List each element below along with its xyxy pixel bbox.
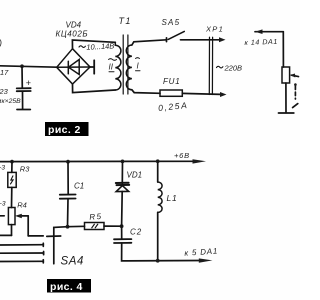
wire fuse to plug (182, 93, 220, 94)
svg-text:КЦ402Б: КЦ402Б (56, 30, 89, 39)
mechanical link dashed (294, 86, 296, 99)
switch SA5 lever (168, 31, 184, 39)
fig.4 caption (47, 279, 91, 293)
SA4 moving contact bar (47, 235, 61, 237)
wire rail to L1 (157, 161, 159, 182)
svg-text:17: 17 (0, 68, 9, 77)
svg-text:0-3: 0-3 (0, 201, 6, 208)
svg-text:0мк×25В: 0мк×25В (0, 98, 21, 105)
capacitor C1 (60, 194, 76, 196)
svg-text:0,25А: 0,25А (158, 100, 189, 113)
svg-text:R5: R5 (89, 212, 103, 222)
svg-text:II: II (109, 63, 114, 72)
+6V top rail (0, 160, 194, 162)
wire down to trimmer (282, 32, 284, 67)
switch SA4 contact line 2 (0, 252, 44, 254)
svg-text:FU1: FU1 (163, 77, 181, 86)
wire node to C2 (121, 226, 123, 239)
wiper wire down (27, 216, 29, 236)
bottom rail arrow to 5 DA1 (199, 258, 213, 262)
svg-text:SA5: SA5 (162, 18, 181, 27)
svg-text:к 14 DA1: к 14 DA1 (244, 37, 278, 47)
diode inside bridge (68, 60, 79, 75)
svg-text:I: I (137, 62, 140, 71)
trimmer resistor body (282, 67, 290, 83)
svg-text:XP1: XP1 (205, 25, 224, 34)
svg-text:Т1: Т1 (119, 16, 132, 26)
wire C2 to bottom rail (122, 243, 200, 261)
plug XP1 bottom arrow (220, 92, 227, 97)
switch SA4 contact line 3 (0, 260, 43, 262)
svg-text:): ) (0, 38, 2, 48)
fuse FU1 (160, 90, 182, 96)
svg-text:8-3: 8-3 (0, 165, 5, 172)
node rail-C1 (66, 160, 70, 164)
svg-text:VD4: VD4 (66, 21, 82, 30)
resistor R3 (8, 172, 16, 187)
trimmer wiper arrow (292, 75, 299, 76)
fig.2 caption (45, 122, 89, 136)
wire rail to R3 (11, 162, 13, 173)
wire R5 to node VD1 (104, 225, 122, 227)
R4 left stub (0, 215, 4, 217)
winding II of T1 (115, 42, 121, 90)
svg-text:C2: C2 (130, 228, 142, 237)
diode VD1 (116, 183, 129, 192)
node junction on main wire (20, 64, 24, 68)
R4 bottom lead (11, 225, 13, 236)
node rail-VD1 (121, 160, 125, 164)
svg-text:к 5 DA1: к 5 DA1 (184, 246, 218, 257)
winding II label (109, 59, 117, 72)
svg-text:R3: R3 (20, 165, 30, 174)
wire to C23 (21, 66, 23, 87)
wire winding I bottom to fuse (132, 90, 160, 94)
svg-text:10...14В: 10...14В (86, 41, 114, 51)
winding I label (136, 58, 141, 71)
switch SA5 contact tick (166, 38, 168, 42)
svg-text:L1: L1 (167, 193, 178, 203)
wire R3 to R4 (11, 187, 13, 207)
ground chassis bar right (279, 112, 294, 114)
node rail-L1 (156, 159, 160, 163)
node R5-VD1-C2 (120, 224, 124, 228)
plug XP1 top arrow (219, 37, 226, 42)
svg-text:C23: C23 (0, 87, 9, 96)
svg-text:220В: 220В (224, 64, 243, 73)
R4 wiper arrow (20, 215, 29, 217)
node C1-R5-SA4 (66, 225, 70, 229)
wire rail to VD1 (121, 161, 123, 183)
wire L1 to bottom rail (157, 212, 159, 260)
svg-text:VD1: VD1 (127, 170, 143, 179)
wire main left horizontal (0, 66, 57, 67)
bridge rectifier VD4 diamond (57, 49, 90, 84)
capacitor C23 (0, 78, 31, 105)
wire C23 to ground (22, 92, 24, 110)
wire VD1 to node (121, 192, 124, 227)
SA4 common wire (54, 227, 68, 264)
svg-text:SA4: SA4 (61, 256, 85, 268)
svg-text:R4: R4 (17, 200, 27, 209)
wire C1 to node (67, 199, 70, 227)
node L1-bottom rail (156, 259, 160, 263)
wire bridge bottom to winding II (73, 84, 116, 93)
resistor R5 trimmer (85, 223, 105, 230)
wiper contact bar (28, 235, 43, 237)
resistor R4 variable (8, 208, 15, 225)
wire node to R5 (68, 225, 85, 227)
plug XP1 double lines (208, 37, 210, 94)
wire bridge top to winding II (72, 40, 115, 49)
link arrow fragment (293, 104, 298, 108)
ground chassis bar (17, 109, 30, 111)
capacitor C2 (114, 238, 131, 240)
winding I of T1 (126, 45, 132, 90)
svg-text:C1: C1 (74, 182, 84, 191)
svg-text:+: + (26, 78, 31, 88)
svg-text:+6В: +6В (174, 151, 190, 160)
label ~220V (217, 66, 223, 68)
transformer core lines (122, 35, 124, 94)
switch SA4 contact line 1 (0, 244, 43, 246)
node rail-R3 (10, 160, 14, 164)
wire winding I top to switch (132, 40, 167, 45)
arrow to pin 14 DA1 (255, 31, 262, 33)
bridge output stub and bar (90, 66, 94, 68)
inductor L1 (158, 182, 162, 212)
svg-text:рис. 4: рис. 4 (50, 281, 83, 293)
label ~10...14V (79, 46, 85, 48)
wire rail to C1 (67, 162, 69, 195)
wire trimmer to ground (285, 83, 287, 113)
+6V rail arrow (193, 159, 207, 163)
wire switch to plug (181, 39, 221, 41)
svg-text:рис. 2: рис. 2 (48, 124, 81, 136)
